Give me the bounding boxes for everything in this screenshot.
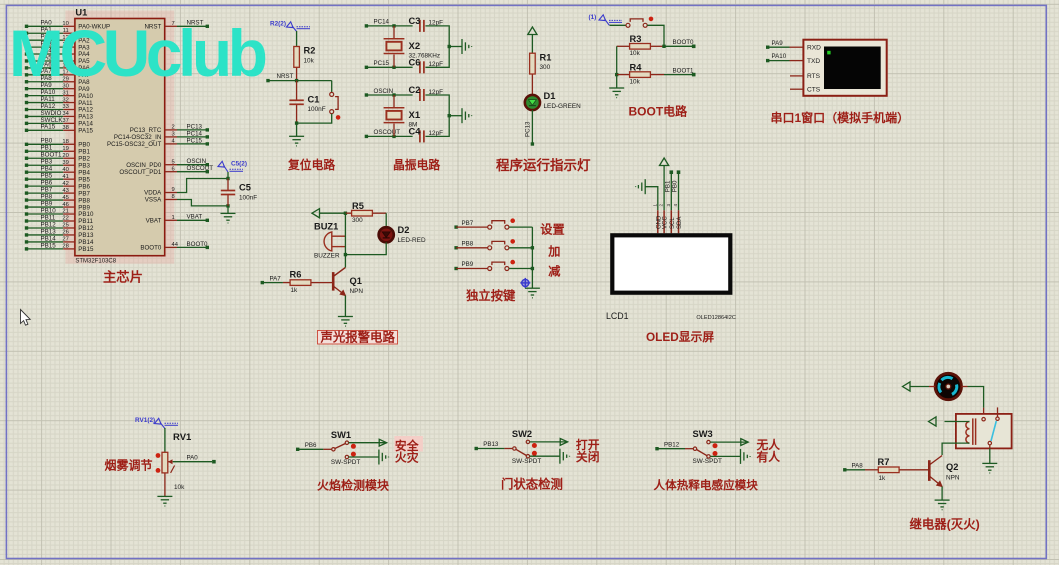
terminal cursor: [827, 51, 830, 55]
wire key ground rail: [531, 227, 533, 288]
pin 19 stub: [63, 150, 75, 152]
wire net PA6: [27, 67, 64, 69]
svg-text:VSSA: VSSA: [145, 197, 162, 204]
svg-text:PC15: PC15: [187, 137, 203, 144]
LCD1 OLED display body: [610, 233, 732, 295]
svg-text:PC14-OSC32_IN: PC14-OSC32_IN: [114, 134, 161, 141]
pin 3 stub: [165, 136, 177, 138]
pin 11 stub: [63, 32, 75, 34]
svg-text:R1: R1: [540, 53, 552, 63]
wire reset button to C1: [297, 114, 332, 123]
wire GND OLED: [645, 187, 658, 211]
capacitor C1 leads: [296, 81, 298, 101]
resistor R2 leads: [296, 67, 298, 80]
LED D1: [525, 95, 540, 110]
svg-text:C6: C6: [409, 58, 421, 68]
svg-text:3: 3: [172, 132, 175, 138]
node PC15: [365, 66, 368, 69]
resistor R3 leads: [617, 45, 630, 47]
pin 17 stub: [63, 74, 75, 76]
ground SW1: [379, 450, 389, 465]
svg-text:VCC: VCC: [663, 216, 669, 229]
svg-text:OLED12864I2C: OLED12864I2C: [696, 315, 736, 321]
wire BOOT1 net: [664, 74, 692, 76]
svg-text:C5(2): C5(2): [231, 161, 247, 168]
svg-text:PB5: PB5: [41, 173, 53, 180]
node PA12: [25, 108, 28, 111]
wire net PB1: [27, 150, 64, 152]
node PC14: [365, 24, 368, 27]
svg-text:PA10: PA10: [772, 53, 787, 60]
svg-text:10k: 10k: [174, 484, 185, 491]
svg-text:OSCOUT: OSCOUT: [187, 165, 214, 172]
svg-text:40: 40: [62, 167, 68, 173]
svg-text:R6: R6: [290, 270, 302, 280]
wire net PB14: [27, 241, 64, 243]
svg-text:PA15: PA15: [41, 124, 56, 131]
wire net PA1: [27, 32, 64, 34]
svg-text:PA15: PA15: [78, 128, 93, 135]
svg-text:PB14: PB14: [78, 239, 94, 246]
svg-text:RV1: RV1: [173, 432, 192, 443]
wire PA8 net: [845, 469, 865, 471]
node PA1: [25, 32, 28, 35]
ground BOOT: [609, 88, 624, 98]
node PB9: [454, 267, 457, 270]
capacitor C6: [420, 61, 424, 73]
node PA7: [25, 73, 28, 76]
node OSCIN: [365, 93, 368, 96]
resistor R6: [290, 280, 311, 286]
probe label R2(2): [270, 21, 310, 32]
wire emitter to ground: [941, 487, 943, 501]
wire to R2: [296, 31, 298, 46]
pin RTS stub: [790, 75, 803, 77]
svg-text:TXD: TXD: [807, 58, 820, 65]
terminal PB1: [670, 170, 674, 174]
pin 41 stub: [63, 178, 75, 180]
svg-text:MCUclub: MCUclub: [9, 16, 266, 90]
svg-text:1: 1: [172, 215, 175, 221]
IC U1 STM32F103C8 body: [75, 19, 165, 256]
push button reset: [330, 92, 341, 119]
terminal BOOT1: [692, 73, 696, 77]
svg-text:R2(2): R2(2): [270, 21, 286, 28]
pin 46 stub: [63, 206, 75, 208]
svg-text:9: 9: [172, 187, 175, 193]
node PB0: [25, 143, 28, 146]
mouse cursor: [21, 310, 31, 326]
resistor R5: [352, 210, 373, 216]
svg-text:34: 34: [62, 111, 69, 117]
capacitor C5: [221, 191, 235, 195]
svg-text:PB4: PB4: [78, 169, 90, 176]
terminal PB0: [677, 170, 681, 174]
node PA10: [766, 59, 769, 62]
crystal X2: [384, 39, 405, 54]
svg-text:PB8: PB8: [78, 197, 90, 204]
wire SW1 NO: [349, 442, 387, 444]
junction rail PB8: [531, 246, 534, 249]
node PA6: [25, 66, 28, 69]
pin 39 stub: [63, 164, 75, 166]
ground crystal: [462, 39, 472, 54]
wire probe to C5: [227, 172, 229, 179]
wire net VBAT: [177, 219, 207, 221]
pin 6 stub: [165, 171, 177, 173]
pin 34 stub: [63, 115, 75, 117]
wire R3-R4 rail: [616, 46, 618, 74]
junction BOOT0: [662, 45, 665, 48]
transistor Q1: [333, 268, 345, 296]
wire net PB7: [27, 192, 64, 194]
switch SW3: [693, 440, 717, 458]
ground C5: [221, 213, 236, 223]
wire net PC13: [177, 129, 207, 131]
wire net PB9: [27, 206, 64, 208]
junction ground rail: [448, 45, 451, 48]
ground SW3: [741, 449, 751, 464]
ground Q2: [935, 500, 950, 510]
transistor Q2: [929, 456, 942, 487]
svg-text:Q1: Q1: [350, 276, 362, 286]
wire coil bottom to Q2: [942, 443, 969, 455]
svg-text:PB10: PB10: [41, 207, 57, 214]
pin 25 stub: [63, 227, 75, 229]
wire power to R5: [320, 212, 346, 214]
wire PB13 to SW: [476, 448, 504, 450]
wire to ground: [296, 123, 298, 136]
ground RV1: [157, 496, 172, 506]
svg-text:D1: D1: [544, 91, 556, 101]
wire net PB8: [27, 199, 64, 201]
svg-text:BUZ1: BUZ1: [314, 221, 338, 231]
wire to ground: [449, 115, 462, 117]
pin SCL stub: [670, 210, 672, 233]
svg-text:CTS: CTS: [807, 87, 821, 94]
wire emitter to ground: [344, 296, 346, 317]
wire caps to ground rail: [425, 95, 449, 136]
svg-text:3: 3: [666, 204, 671, 207]
pin 20 stub: [63, 157, 75, 159]
power arrow SW1: [379, 439, 386, 446]
junction R4 left: [615, 73, 618, 76]
junction ground rail: [448, 114, 451, 117]
pin 22 stub: [63, 220, 75, 222]
wire to ground: [616, 75, 618, 88]
pin 21 stub: [63, 213, 75, 215]
wire C5 to ground: [227, 206, 229, 214]
svg-text:PC14: PC14: [187, 130, 203, 137]
svg-text:复位电路: 复位电路: [287, 158, 335, 172]
svg-text:1k: 1k: [879, 475, 887, 482]
highlight box: [394, 436, 423, 452]
wire coil top to power: [945, 421, 970, 423]
wire net PA8: [27, 81, 64, 83]
svg-text:43: 43: [62, 188, 68, 194]
svg-text:主芯片: 主芯片: [103, 269, 143, 285]
power arrow OLED: [660, 158, 669, 166]
wire net OSCOUT: [177, 171, 207, 173]
junction C5 bottom: [226, 204, 229, 207]
wire contact to ground: [989, 448, 991, 463]
svg-text:OSCIN: OSCIN: [187, 158, 207, 165]
svg-text:PB7: PB7: [41, 187, 53, 194]
pin 5 stub: [165, 164, 177, 166]
svg-text:BUZZER: BUZZER: [314, 253, 340, 260]
pin 43 stub: [63, 192, 75, 194]
wire NRST net: [268, 80, 332, 82]
pin 44 stub: [165, 246, 177, 248]
svg-text:PB0: PB0: [672, 180, 679, 192]
svg-text:串口1窗口（模拟手机端）: 串口1窗口（模拟手机端）: [771, 110, 910, 125]
svg-text:C1: C1: [308, 95, 320, 105]
wire D2 to collector: [345, 242, 386, 254]
wire net PA9: [27, 88, 64, 90]
pin CTS stub: [790, 88, 803, 90]
svg-text:SCL: SCL: [670, 217, 676, 229]
wire PA9 to RXD: [768, 46, 790, 48]
pin 4 stub: [165, 143, 177, 145]
svg-text:OLED显示屏: OLED显示屏: [646, 330, 714, 344]
svg-text:1: 1: [652, 204, 657, 207]
wire OSCOUT net: [366, 135, 412, 137]
switch SW1: [332, 441, 356, 459]
IC U1 highlight halo: [65, 11, 174, 264]
wire button PB9 to rail: [509, 268, 532, 270]
selection box caption: [318, 331, 398, 345]
wire SW1 NC: [349, 456, 379, 458]
svg-text:PB8: PB8: [41, 193, 53, 200]
svg-text:PB6: PB6: [305, 442, 317, 449]
svg-text:300: 300: [540, 64, 551, 71]
svg-text:PB7: PB7: [78, 190, 90, 197]
node PB12: [655, 447, 658, 450]
pin 37 stub: [63, 122, 75, 124]
ground SW2: [560, 449, 570, 464]
svg-text:关闭: 关闭: [576, 450, 600, 464]
pin 29 stub: [63, 81, 75, 83]
wire SW2 NO: [530, 441, 568, 443]
wire net PB6: [27, 185, 64, 187]
svg-text:OSCIN: OSCIN: [374, 88, 394, 95]
node PA15: [25, 129, 28, 132]
svg-text:R5: R5: [352, 201, 364, 211]
svg-text:STM32F103C8: STM32F103C8: [75, 258, 116, 264]
node PA8: [25, 80, 28, 83]
pin 32 stub: [63, 102, 75, 104]
capacitor C1: [289, 100, 303, 104]
svg-text:300: 300: [352, 217, 363, 224]
svg-text:8: 8: [172, 194, 175, 200]
resistor R6 leads: [283, 282, 290, 284]
wire VCC OLED: [663, 166, 665, 211]
buzzer BUZ1: [324, 232, 345, 251]
svg-text:PB6: PB6: [41, 180, 53, 187]
wire PB7 to button: [456, 226, 488, 228]
resistor R4 leads: [617, 74, 630, 76]
wire net PB3: [27, 164, 64, 166]
wire net PA2: [27, 39, 64, 41]
pin 9 stub: [165, 192, 177, 194]
wire net PA11: [27, 102, 64, 104]
wire net PB4: [27, 171, 64, 173]
svg-text:BOOT1: BOOT1: [41, 152, 63, 159]
svg-text:继电器(灭火): 继电器(灭火): [910, 516, 980, 531]
svg-text:C2: C2: [409, 85, 421, 95]
svg-text:PB7: PB7: [462, 220, 474, 227]
terminal screen: [824, 47, 881, 90]
wire buzzer rail: [344, 213, 346, 254]
svg-text:PC15: PC15: [374, 60, 390, 67]
svg-text:PB12: PB12: [78, 225, 94, 232]
node PB6: [296, 448, 299, 451]
pin 27 stub: [63, 241, 75, 243]
crystal X1: [384, 108, 405, 123]
wire RV1 to ground: [164, 473, 166, 496]
wire motor to relay: [962, 386, 968, 388]
svg-text:门状态检测: 门状态检测: [501, 477, 563, 492]
junction collector: [344, 253, 347, 256]
svg-text:PB15: PB15: [78, 246, 94, 253]
svg-text:33: 33: [62, 104, 68, 110]
svg-text:C4: C4: [409, 127, 422, 137]
wire button PB7 to rail: [509, 226, 532, 228]
node PA7: [261, 281, 264, 284]
push button BOOT: [626, 17, 653, 28]
wire PB6 to SW: [298, 448, 324, 450]
wire collector: [344, 255, 346, 268]
ground OLED: [636, 179, 646, 194]
wire net PB0: [27, 143, 64, 145]
svg-text:100nF: 100nF: [239, 195, 257, 202]
resistor R4: [630, 72, 651, 78]
junction X1 top: [392, 93, 395, 96]
svg-text:X2: X2: [409, 41, 421, 52]
capacitor C3: [420, 20, 424, 32]
wire button to BOOT0: [647, 25, 664, 46]
svg-text:45: 45: [62, 195, 68, 201]
wire power to R1: [531, 35, 533, 54]
svg-text:X1: X1: [409, 110, 421, 121]
svg-text:OSCIN_PD0: OSCIN_PD0: [126, 162, 162, 169]
crystal X2 leads: [393, 26, 395, 39]
node OSCOUT: [206, 170, 209, 173]
svg-text:火焰检测模块: 火焰检测模块: [317, 478, 390, 493]
svg-text:PA8: PA8: [852, 462, 864, 469]
motor lead left: [929, 386, 935, 388]
svg-text:BOOT1: BOOT1: [673, 67, 695, 74]
svg-text:32: 32: [62, 97, 68, 103]
svg-text:PB9: PB9: [41, 200, 53, 207]
svg-text:Q2: Q2: [946, 462, 958, 472]
svg-text:OSCOUT: OSCOUT: [374, 129, 401, 136]
wire R5 to D2: [385, 213, 387, 227]
svg-text:21: 21: [62, 209, 68, 215]
svg-text:PB10: PB10: [78, 211, 94, 218]
svg-text:SW2: SW2: [512, 429, 532, 439]
ground relay contact: [982, 463, 997, 473]
svg-text:100nF: 100nF: [308, 106, 326, 113]
resistor R1: [530, 53, 536, 74]
svg-text:PB12: PB12: [41, 221, 57, 228]
svg-text:C3: C3: [409, 16, 421, 26]
svg-text:有人: 有人: [757, 450, 781, 464]
wire OSCIN net: [366, 94, 412, 96]
pin SDA stub: [678, 210, 680, 233]
svg-text:27: 27: [62, 237, 68, 243]
virtual terminal body: [803, 40, 886, 96]
node PB5: [25, 177, 28, 180]
svg-text:程序运行指示灯: 程序运行指示灯: [496, 157, 591, 173]
wire SW3 NC: [710, 455, 740, 457]
node PB8: [454, 246, 457, 249]
junction C1 bottom: [295, 121, 298, 124]
power arrow SW2: [560, 439, 567, 446]
svg-text:设置: 设置: [540, 222, 564, 237]
node PC13 LED: [531, 142, 534, 145]
svg-text:10k: 10k: [304, 58, 315, 65]
svg-text:PC13: PC13: [525, 121, 532, 137]
wire PA0 wiper: [173, 461, 212, 463]
node PA3: [25, 45, 28, 48]
node PA2: [25, 38, 28, 41]
node PB10: [25, 212, 28, 215]
pin 2 stub: [165, 129, 177, 131]
wire net SWCLK: [27, 122, 64, 124]
svg-text:PB2: PB2: [78, 155, 90, 162]
resistor R5 leads: [345, 212, 351, 214]
probe label C5(2): [218, 161, 247, 173]
wire net NRST: [177, 25, 207, 27]
pin VCC stub: [663, 210, 665, 233]
svg-text:PB15: PB15: [41, 242, 57, 249]
wire to ground: [449, 46, 462, 48]
wire net PB12: [27, 227, 64, 229]
capacitor C4: [420, 130, 424, 142]
junction rail PB9: [531, 267, 534, 270]
wire net PB5: [27, 178, 64, 180]
node PC13: [206, 128, 209, 131]
node PA0: [25, 25, 28, 28]
svg-text:SW1: SW1: [331, 430, 351, 440]
node PB9: [25, 205, 28, 208]
svg-text:GND: GND: [656, 215, 662, 229]
svg-text:SW3: SW3: [693, 429, 713, 439]
terminal BOOT0: [692, 45, 696, 49]
wire net PC15: [177, 143, 207, 145]
svg-text:PC14: PC14: [374, 19, 390, 26]
svg-text:4: 4: [673, 204, 678, 207]
node PA9: [25, 87, 28, 90]
LED D2: [379, 227, 394, 242]
pin 30 stub: [63, 88, 75, 90]
junction X2 bottom: [392, 66, 395, 69]
wire to reset button: [331, 81, 333, 93]
node PB13: [475, 447, 478, 450]
wire net PB15: [27, 248, 64, 250]
svg-text:人体热释电感应模块: 人体热释电感应模块: [654, 478, 759, 492]
pin 42 stub: [63, 185, 75, 187]
svg-text:46: 46: [62, 202, 68, 208]
svg-text:PB11: PB11: [78, 218, 93, 225]
pin 28 stub: [63, 248, 75, 250]
svg-text:加: 加: [547, 244, 560, 259]
junction C5 top: [226, 177, 229, 180]
svg-text:25: 25: [62, 223, 68, 229]
svg-text:PB9: PB9: [78, 204, 90, 211]
svg-text:PB14: PB14: [41, 235, 57, 242]
